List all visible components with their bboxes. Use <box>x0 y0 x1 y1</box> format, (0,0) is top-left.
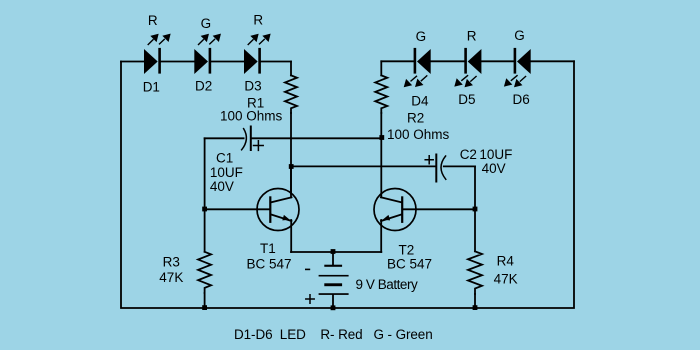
svg-text:T2: T2 <box>399 243 415 258</box>
svg-text:BC 547: BC 547 <box>247 257 292 272</box>
svg-text:R2: R2 <box>407 111 424 126</box>
svg-text:T1: T1 <box>260 241 276 256</box>
svg-text:R4: R4 <box>497 253 515 268</box>
svg-text:G: G <box>416 29 427 44</box>
svg-text:R: R <box>148 13 158 28</box>
svg-text:D1-D6 LED R- Red G - Gre: D1-D6 LED R- Red G - Green <box>234 327 433 342</box>
svg-text:G: G <box>201 16 212 31</box>
svg-text:D2: D2 <box>195 79 212 94</box>
svg-text:R: R <box>467 28 477 43</box>
svg-text:D6: D6 <box>513 92 530 107</box>
svg-text:47K: 47K <box>494 271 518 286</box>
svg-text:G: G <box>514 28 525 43</box>
svg-text:D4: D4 <box>411 94 429 109</box>
svg-text:C1: C1 <box>216 151 233 166</box>
svg-text:C210UF: C210UF <box>460 147 513 162</box>
svg-text:10UF: 10UF <box>210 165 243 180</box>
svg-text:R3: R3 <box>163 254 180 269</box>
svg-text:100 Ohms: 100 Ohms <box>220 109 283 124</box>
svg-text:9 V Battery: 9 V Battery <box>356 277 419 292</box>
svg-text:40V: 40V <box>210 179 234 194</box>
svg-text:BC 547: BC 547 <box>387 257 432 272</box>
svg-text:D1: D1 <box>143 80 160 95</box>
svg-text:R: R <box>253 13 263 28</box>
svg-text:100 Ohms: 100 Ohms <box>387 127 450 142</box>
svg-text:40V: 40V <box>482 161 506 176</box>
svg-text:47K: 47K <box>159 270 183 285</box>
svg-text:D5: D5 <box>458 92 475 107</box>
svg-text:D3: D3 <box>244 79 261 94</box>
